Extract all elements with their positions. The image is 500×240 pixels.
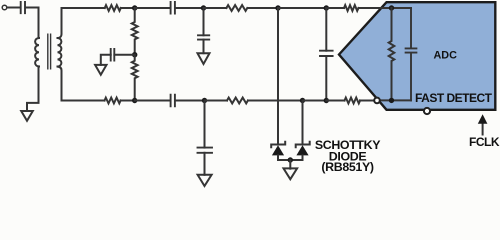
capacitor C4 (top shunt) xyxy=(198,35,209,39)
wire T1 secondary top lead to top rail xyxy=(58,8,62,38)
resistor R3 (top rail) xyxy=(226,5,247,11)
wire C2 to node B xyxy=(176,7,204,9)
schottky diode D1 body xyxy=(272,145,284,155)
node E junction dot (mid link) xyxy=(132,52,137,57)
wire node G to R4 xyxy=(205,100,228,102)
ADC internal top stub xyxy=(392,7,412,9)
wire node H to node I xyxy=(303,100,327,102)
resistor R1 (top rail) xyxy=(105,5,121,11)
ground (C7) xyxy=(198,175,212,186)
wire R4 to node H xyxy=(248,100,303,102)
wire input to C1 xyxy=(7,7,20,9)
input terminal J1 xyxy=(2,5,7,10)
ADC internal resistor R7 xyxy=(389,8,395,100)
transformer T1 primary winding xyxy=(35,35,39,67)
capacitor C6 (bottom rail series) xyxy=(171,95,175,107)
node H junction dot (diode D2 tap) xyxy=(300,98,305,103)
wire node D down through C5 xyxy=(325,8,327,51)
wire bottom rail segment 1 xyxy=(62,100,105,102)
capacitor C7 (bottom shunt) xyxy=(198,148,213,153)
svg-text:FCLK: FCLK xyxy=(469,135,500,149)
node D junction dot xyxy=(324,5,329,10)
ADC internal bottom stub xyxy=(380,99,411,101)
R2b lower resistor xyxy=(132,55,138,101)
node F junction dot xyxy=(132,98,137,103)
schottky diode D2 cathode bar xyxy=(296,142,310,147)
wire node B to R3 xyxy=(204,7,227,9)
svg-text:(RB851Y): (RB851Y) xyxy=(321,160,374,174)
wire C4 to ground xyxy=(203,40,205,54)
resistor R4 (bottom rail) xyxy=(227,98,248,104)
wire R2 to node F xyxy=(121,100,135,102)
wire C3 to ground xyxy=(101,55,111,65)
wire node D to R5 xyxy=(326,7,344,9)
wire D1 anode down xyxy=(277,155,279,160)
FAST DETECT pin (open circle) xyxy=(424,108,430,114)
wire node B down to C4 xyxy=(203,8,205,35)
ground (C3) xyxy=(95,65,106,75)
wire C5 to bottom rail xyxy=(325,56,327,101)
svg-text:FAST DETECT: FAST DETECT xyxy=(415,91,493,105)
ADC input pin (open circle) xyxy=(374,98,380,104)
transformer T1 core xyxy=(48,34,51,69)
ADC internal capacitor C8 xyxy=(406,8,417,100)
capacitor C5 (differential) xyxy=(320,51,333,56)
wire node J to ground xyxy=(289,160,291,169)
resistor R5 (top rail to ADC) xyxy=(344,5,358,11)
ground (primary) xyxy=(21,111,33,121)
node C junction dot xyxy=(275,5,280,10)
node K junction dot (ADC internal top) xyxy=(389,5,394,10)
wire R6 to ADC input pin xyxy=(360,100,374,102)
wire node G down to C7 xyxy=(204,101,206,148)
wire C6 to node G xyxy=(176,100,205,102)
wire R3 to node C xyxy=(248,7,279,9)
node B junction dot xyxy=(201,5,206,10)
wire R1 to node A xyxy=(121,7,135,9)
ground (C4) xyxy=(198,53,210,64)
schottky diode D1 cathode bar xyxy=(271,142,285,147)
wire diode common rail xyxy=(278,159,303,161)
wire node H down to diode D2 xyxy=(302,101,304,145)
capacitor C2 (top rail series) xyxy=(171,2,175,14)
wire R5 into ADC xyxy=(359,7,392,9)
resistor R2 (bottom rail) xyxy=(105,98,121,104)
wire T1 secondary bottom lead to bottom rail xyxy=(58,67,62,101)
resistor R6 (bottom rail to ADC) xyxy=(345,98,361,104)
wire T1 primary bottom to ground xyxy=(27,66,39,111)
wire node C down to diode D1 (crosses bottom rail) xyxy=(277,8,279,145)
wire C7 to ground xyxy=(204,153,206,175)
capacitor C3 (link bypass) xyxy=(111,49,115,61)
svg-text:ADC: ADC xyxy=(433,49,457,61)
wire D2 anode down xyxy=(302,155,304,160)
node L junction dot (ADC internal bottom) xyxy=(389,98,394,103)
ADC block U1 xyxy=(339,2,495,110)
wire node I to R6 xyxy=(326,100,344,102)
wire C1 to transformer T1 primary xyxy=(26,8,39,35)
node A junction dot xyxy=(132,5,137,10)
wire node C to node D xyxy=(278,7,326,9)
transformer T1 secondary winding xyxy=(58,38,62,66)
schottky diode D2 body xyxy=(296,145,308,155)
vertical link: R2a upper resistor xyxy=(132,8,138,55)
node G junction dot xyxy=(202,98,207,103)
node J junction dot (diode common) xyxy=(288,157,293,162)
node I junction dot xyxy=(324,98,329,103)
wire top rail segment 1 xyxy=(62,7,105,9)
wire node A to C2 xyxy=(135,7,170,9)
wire node E to C3 xyxy=(114,54,134,56)
FCLK arrow xyxy=(482,122,484,135)
wire node F to C6 xyxy=(135,100,170,102)
capacitor C1 (input series) xyxy=(21,2,25,13)
ground (diodes) xyxy=(284,168,298,179)
